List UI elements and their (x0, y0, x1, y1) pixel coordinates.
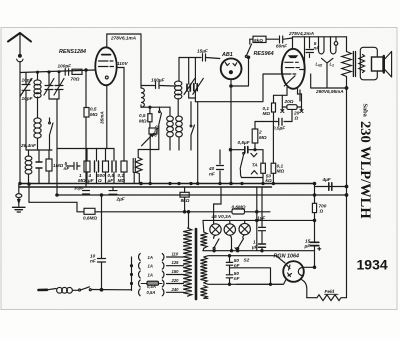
svg-text:100µF: 100µF (151, 78, 165, 83)
svg-text:150: 150 (172, 269, 180, 274)
svg-text:2µF: 2µF (116, 197, 125, 202)
svg-text:1µF: 1µF (257, 216, 265, 221)
svg-text:100pF: 100pF (58, 64, 72, 69)
svg-text:240: 240 (171, 287, 180, 292)
svg-text:40: 40 (208, 166, 215, 171)
svg-text:1A: 1A (148, 273, 153, 278)
svg-text:Ω: Ω (97, 178, 102, 183)
svg-text:µF: µF (107, 178, 114, 183)
svg-text:110: 110 (172, 252, 179, 257)
svg-text:MΩ: MΩ (259, 135, 267, 140)
svg-text:Feld: Feld (325, 289, 335, 294)
svg-text:nF: nF (234, 276, 240, 281)
svg-text:nF: nF (90, 259, 96, 264)
svg-text:4µF: 4µF (322, 177, 331, 182)
svg-text:26,4nF: 26,4nF (20, 143, 36, 148)
svg-text:RES964: RES964 (254, 51, 274, 57)
svg-text:MΩ: MΩ (90, 112, 98, 117)
svg-text:TA: TA (252, 162, 259, 167)
svg-text:9kΩ: 9kΩ (181, 198, 190, 203)
svg-text:0,5µF: 0,5µF (273, 126, 285, 131)
svg-text:nF: nF (209, 172, 215, 177)
svg-text:AB1: AB1 (221, 52, 233, 58)
svg-text:70Ω: 70Ω (71, 77, 80, 82)
svg-text:275V4,2mA: 275V4,2mA (288, 31, 315, 36)
svg-text:110V: 110V (117, 61, 128, 66)
svg-text:0,5: 0,5 (90, 107, 97, 112)
svg-text:µF: µF (251, 245, 258, 250)
svg-text:S2: S2 (244, 258, 250, 263)
svg-text:0,6MΩ: 0,6MΩ (83, 216, 97, 221)
svg-text:nF: nF (314, 46, 320, 51)
svg-text:220: 220 (171, 278, 180, 283)
svg-text:20Ω: 20Ω (284, 99, 294, 104)
svg-text:Ω: Ω (319, 209, 324, 214)
svg-text:RENS1284: RENS1284 (59, 49, 86, 55)
svg-text:0,5µF: 0,5µF (238, 140, 250, 145)
svg-text:290V6,95mA: 290V6,95mA (315, 89, 344, 94)
svg-text:MΩ: MΩ (78, 178, 86, 183)
svg-text:1A: 1A (148, 264, 153, 269)
svg-text:278V6,1mA: 278V6,1mA (110, 36, 137, 41)
svg-text:1MΩ: 1MΩ (53, 163, 64, 168)
svg-text:kΩ: kΩ (265, 178, 272, 183)
svg-text:nF: nF (234, 263, 240, 268)
svg-text:Ω: Ω (294, 116, 299, 121)
svg-text:µF: µF (304, 244, 311, 249)
svg-text:nF: nF (64, 166, 70, 171)
svg-text:125: 125 (172, 260, 180, 265)
svg-text:10pF: 10pF (22, 96, 33, 101)
svg-text:0,5A: 0,5A (147, 284, 156, 289)
svg-text:45 V0,3A: 45 V0,3A (211, 214, 232, 219)
svg-text:MΩ: MΩ (118, 178, 126, 183)
svg-text:35mA: 35mA (100, 111, 105, 124)
svg-text:5kΩ: 5kΩ (254, 38, 263, 43)
svg-text:2: 2 (258, 130, 262, 135)
svg-text:0,6MΩ: 0,6MΩ (232, 204, 246, 209)
svg-text:MΩ: MΩ (277, 169, 285, 174)
svg-text:µF: µF (87, 178, 94, 183)
svg-text:MΩ: MΩ (139, 119, 147, 124)
svg-text:60nF: 60nF (276, 44, 287, 49)
svg-text:Saba: Saba (362, 104, 369, 118)
svg-text:1934: 1934 (357, 257, 388, 273)
svg-text:0,5: 0,5 (139, 113, 146, 118)
svg-text:15µF: 15µF (197, 49, 208, 54)
svg-text:30pF: 30pF (74, 186, 84, 191)
svg-text:230 WLP/WLH: 230 WLP/WLH (357, 121, 373, 219)
svg-text:0,5A: 0,5A (147, 290, 156, 295)
svg-text:1A: 1A (148, 255, 153, 260)
svg-text:MΩ: MΩ (263, 111, 271, 116)
svg-text:RGN 1064: RGN 1064 (274, 254, 299, 260)
svg-text:10pF: 10pF (22, 78, 33, 83)
